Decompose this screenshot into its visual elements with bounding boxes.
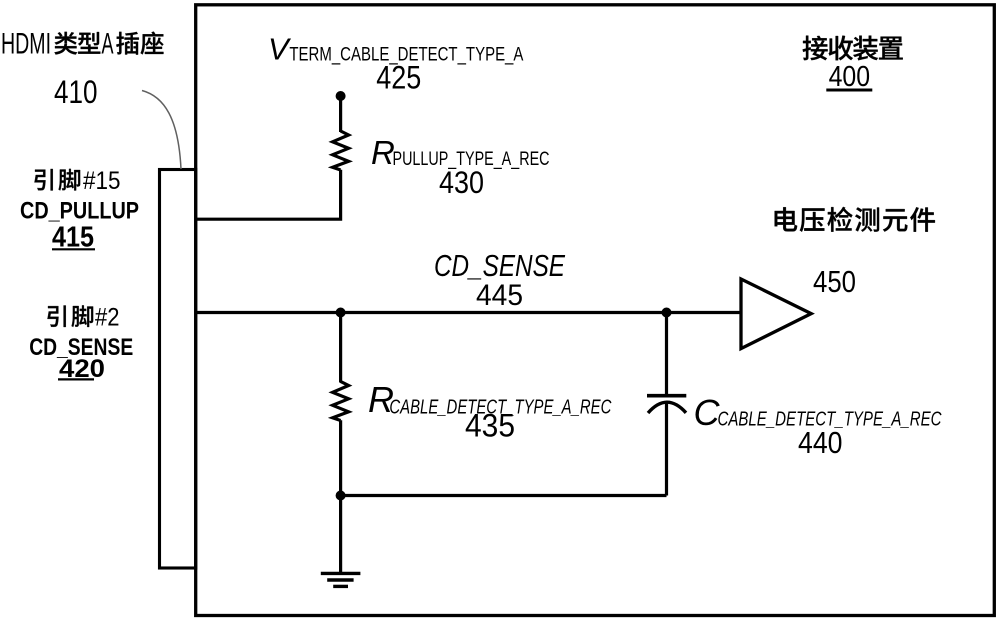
capacitor C_CABLE_DETECT_TYPE_A_REC 440: flat top plate [647, 394, 686, 398]
wire: capacitor bottom plate down to bottom rail [665, 404, 668, 496]
svg-text:430: 430 [439, 164, 484, 200]
net label V_TERM_CABLE_DETECT_TYPE_A [268, 31, 523, 66]
svg-text:CD_PULLUP: CD_PULLUP [20, 198, 139, 225]
HDMI type-A receptacle connector body 410 [160, 170, 196, 569]
svg-text:#15: #15 [83, 167, 121, 195]
label: pin #2 (引脚#2) [47, 304, 119, 332]
label: pin #15 (引脚#15) [34, 167, 120, 195]
wire: bottom rail from R_CABLE to C_CABLE bottom [341, 494, 667, 497]
svg-text:425: 425 [376, 60, 421, 96]
wire: junction down to ground symbol [339, 496, 342, 574]
svg-text:445: 445 [476, 279, 523, 312]
capacitor curved bottom plate [648, 402, 686, 413]
svg-text:C: C [694, 392, 721, 433]
svg-text:450: 450 [813, 264, 856, 299]
svg-text:#2: #2 [95, 304, 120, 332]
svg-text:435: 435 [465, 408, 515, 444]
svg-text:410: 410 [54, 74, 98, 110]
wire: R_CABLE bottom to ground junction [339, 420, 342, 495]
value label R_PULLUP_TYPE_A_REC [371, 134, 550, 171]
node: junction CD_SENSE / R_CABLE branch [336, 308, 346, 318]
wire: junction down to R_CABLE top [339, 313, 342, 383]
wire: VTERM node down to resistor top [339, 96, 342, 132]
ground symbol [321, 573, 361, 586]
svg-text:V: V [268, 31, 292, 66]
wire: CD_SENSE net from connector pin2 to detector input [196, 311, 740, 314]
receiver outline box 400 [196, 5, 995, 616]
wire: junction down to capacitor top plate [665, 313, 668, 396]
label: HDMI type A receptacle (HDMI 类型A插座) [1, 28, 163, 61]
node: junction bottom rail / ground [336, 491, 346, 501]
value label R_CABLE_DETECT_TYPE_A_REC [368, 379, 612, 420]
resistor R_PULLUP_TYPE_A_REC 430 (zigzag) [333, 131, 349, 170]
label: receiving device (接收装置) [803, 36, 828, 61]
node: VTERM supply node at top of R_PULLUP [336, 91, 346, 101]
svg-text:400: 400 [829, 61, 871, 93]
svg-text:R: R [371, 134, 395, 171]
label: voltage detection element (电压检测元件) [775, 207, 797, 231]
svg-text:CD_SENSE: CD_SENSE [434, 248, 565, 283]
leader arc from 410 label to connector [142, 91, 181, 170]
op-amp / voltage-detect buffer 450 (triangle) [741, 279, 811, 349]
wire: resistor bottom to pin15 (CD_PULLUP) of connector [196, 170, 341, 219]
value label C_CABLE_DETECT_TYPE_A_REC [694, 392, 942, 433]
resistor R_CABLE_DETECT_TYPE_A_REC 435 (zigzag) [333, 382, 349, 421]
node: junction CD_SENSE / C_CABLE branch [662, 308, 672, 318]
svg-text:440: 440 [798, 425, 843, 460]
svg-text:HDMI: HDMI [1, 28, 51, 61]
svg-text:A: A [102, 28, 114, 61]
